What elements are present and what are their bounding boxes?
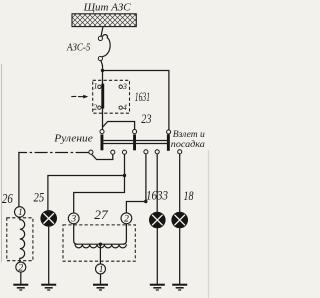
wire branch to second contact [103,122,135,130]
svg-text:1631: 1631 [135,90,150,104]
wire to lamp 25 [48,176,125,211]
svg-text:3: 3 [70,215,76,225]
ground relay 26 [13,285,28,290]
page edge artifact right [208,150,210,298]
svg-text:3: 3 [122,82,127,91]
node corner [144,200,147,203]
wire jumper contact to contact [92,154,113,159]
ground lamp 1633 [150,285,165,290]
relay 1631 coil [101,84,104,109]
ground lamp 25 [41,285,56,290]
busbar (АЗС panel) [72,14,136,27]
lamp 18 [172,212,188,228]
pin 4 [119,103,127,112]
node junction [101,69,104,72]
relay 27 pin 3 [68,213,79,225]
svg-text:18: 18 [184,188,194,203]
relay 1631 box [93,80,130,113]
ground relay 27 [93,285,108,290]
lamp 1633 [149,212,165,228]
wire breaker to relay coil [101,61,103,84]
bottom contact 1 [111,150,115,154]
svg-text:1: 1 [18,208,23,218]
relay 26 box [7,218,33,261]
wire contact4 to lamp 1633 [156,154,158,212]
svg-text:АЗС-5: АЗС-5 [66,42,91,53]
switch bar B [133,134,136,150]
relay 27 coil [75,244,126,248]
relay 27 left lead [74,224,78,244]
switch contact A top [100,130,104,134]
svg-text:2: 2 [18,263,23,273]
svg-text:Щит АЗС: Щит АЗС [83,3,132,14]
bottom contact 4 [155,150,159,154]
svg-text:27: 27 [94,207,108,222]
node coil tap [99,243,102,246]
pin 1 [94,81,102,90]
wire tap to pin 1 [99,244,101,264]
relay 26 pin 1 [15,207,25,218]
bottom contact руление [89,150,93,154]
relay 27 right lead [123,224,127,245]
node tap [123,174,126,177]
switch bar A [101,134,104,150]
pin 3 [119,82,127,91]
page edge artifact left [1,64,3,262]
wire busbar to breaker [101,27,103,37]
svg-text:1633: 1633 [146,187,168,202]
svg-text:23: 23 [141,111,152,126]
relay 26 pin 2 [16,262,26,273]
wire contact2 down [74,155,125,213]
relay 27 pin 2 [121,213,132,225]
switch contact B top [133,130,137,134]
svg-text:2: 2 [93,103,97,112]
circuit breaker АЗС-5 [98,35,110,61]
switch linkage double bar [101,141,170,144]
wire left vertical [18,152,20,207]
bottom contact 5 [178,150,182,154]
svg-text:1: 1 [99,265,104,275]
relay 26 coil [20,217,25,262]
wire pin1 to ground [100,274,102,284]
pin 2 [93,103,101,112]
wire contact5 to lamp 18 [179,154,181,212]
wire junction to right [103,71,169,130]
svg-text:2: 2 [124,215,129,225]
arrow pointer [71,95,88,99]
switch bar C [167,134,170,150]
relay 27 box [63,225,135,261]
svg-text:25: 25 [34,190,45,205]
wire руление dash-dot [18,152,88,154]
wire lamp 18 to ground [179,228,181,284]
bottom contact 3 [144,150,148,154]
svg-text:Взлет и: Взлет и [173,130,205,140]
switch contact C top (взлет) [167,130,171,134]
wire lamp 1633 to ground [156,228,158,284]
svg-text:посадка: посадка [171,139,205,150]
relay 27 pin 1 [96,264,106,275]
lamp 25 [41,210,57,226]
svg-text:26: 26 [2,191,13,206]
svg-text:4: 4 [123,103,127,112]
svg-text:Руление: Руление [53,133,93,144]
wire contact3 to relay 27 pin2 [126,154,145,213]
wire pin2 to ground [20,272,22,284]
bottom contact 2 [122,150,126,154]
svg-text:1: 1 [94,81,98,90]
wire lamp 25 to ground [48,226,50,284]
wire coil to switch contact [102,109,104,130]
ground lamp 18 [172,285,187,290]
